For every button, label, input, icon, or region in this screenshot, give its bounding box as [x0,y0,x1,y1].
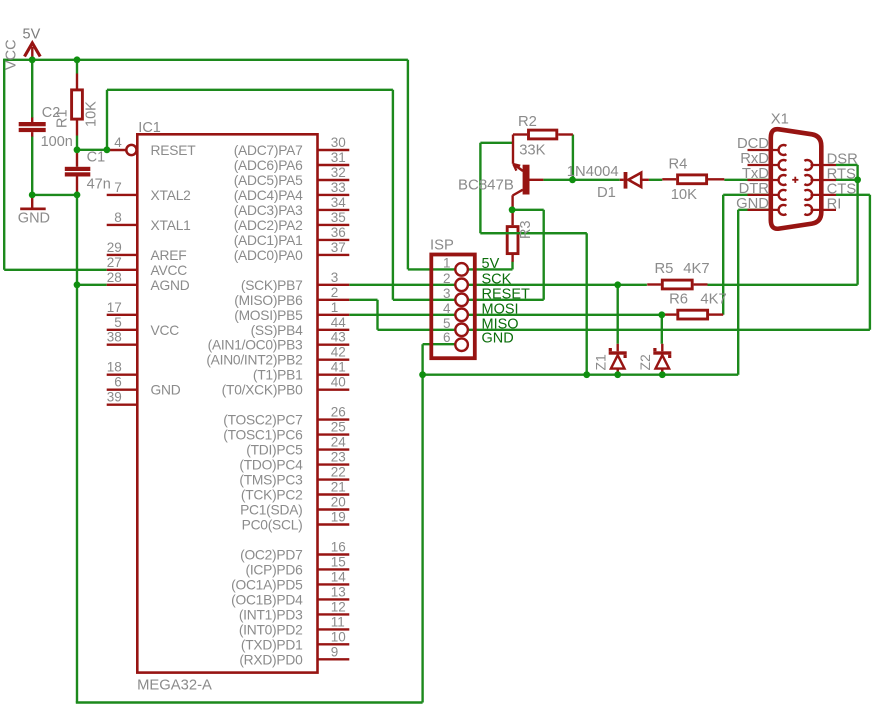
svg-text:29: 29 [107,240,122,255]
svg-text:5: 5 [114,315,122,330]
svg-text:R3: R3 [518,220,534,239]
svg-text:(SS)PB4: (SS)PB4 [251,323,303,338]
svg-text:RESET: RESET [482,286,530,302]
svg-text:BC847B: BC847B [458,176,514,193]
svg-text:12: 12 [331,599,346,614]
svg-text:(ADC7)PA7: (ADC7)PA7 [234,143,303,158]
svg-text:4: 4 [114,135,122,150]
svg-text:GND: GND [482,331,514,347]
svg-text:(ADC4)PA4: (ADC4)PA4 [234,188,303,203]
svg-text:5V: 5V [482,256,500,272]
svg-text:(TCK)PC2: (TCK)PC2 [241,488,303,503]
svg-text:R2: R2 [518,114,537,130]
svg-text:26: 26 [331,405,346,420]
svg-text:20: 20 [331,495,346,510]
svg-text:Z2: Z2 [637,354,653,371]
svg-text:(TXD)PD1: (TXD)PD1 [241,637,303,652]
svg-text:2: 2 [331,285,339,300]
svg-text:37: 37 [331,240,346,255]
svg-text:40: 40 [331,375,346,390]
svg-text:PC1(SDA): PC1(SDA) [240,503,302,518]
svg-text:RI: RI [827,196,842,212]
svg-text:22: 22 [331,465,346,480]
svg-text:(TOSC1)PC6: (TOSC1)PC6 [223,428,303,443]
svg-text:1N4004: 1N4004 [567,164,619,180]
svg-text:42: 42 [331,345,346,360]
svg-text:38: 38 [107,330,122,345]
svg-text:Z1: Z1 [593,354,609,371]
svg-text:4K7: 4K7 [683,261,709,277]
svg-text:(T0/XCK)PB0: (T0/XCK)PB0 [222,383,303,398]
svg-text:31: 31 [331,150,346,165]
svg-text:(MISO)PB6: (MISO)PB6 [234,293,303,308]
svg-text:CTS: CTS [827,181,857,197]
svg-text:11: 11 [331,614,345,629]
svg-text:27: 27 [107,255,122,270]
svg-text:R4: R4 [669,157,688,173]
svg-text:(TDO)PC4: (TDO)PC4 [239,458,303,473]
svg-text:C1: C1 [87,149,106,165]
svg-text:30: 30 [331,135,346,150]
svg-text:(AIN1/OC0)PB3: (AIN1/OC0)PB3 [208,338,303,353]
svg-text:(AIN0/INT2)PB2: (AIN0/INT2)PB2 [206,353,302,368]
svg-text:(ICP)PD6: (ICP)PD6 [245,562,303,577]
svg-text:R1: R1 [55,109,71,128]
svg-text:4: 4 [443,301,451,316]
svg-text:21: 21 [331,480,346,495]
svg-text:9: 9 [331,644,339,659]
svg-text:(ADC2)PA2: (ADC2)PA2 [234,218,303,233]
svg-text:RESET: RESET [151,143,197,158]
svg-text:13: 13 [331,584,346,599]
svg-text:6: 6 [443,330,451,345]
svg-text:MEGA32-A: MEGA32-A [137,677,212,693]
svg-text:32: 32 [331,165,346,180]
svg-text:RTS: RTS [827,167,856,183]
svg-text:GND: GND [736,196,769,212]
svg-text:PC0(SCL): PC0(SCL) [242,518,303,533]
svg-text:VCC: VCC [151,323,180,338]
svg-text:ISP: ISP [430,238,454,254]
svg-text:DTR: DTR [739,181,769,197]
svg-text:(INT1)PD3: (INT1)PD3 [239,607,303,622]
svg-text:R6: R6 [669,291,688,307]
svg-text:23: 23 [331,450,346,465]
svg-text:5: 5 [443,316,451,331]
svg-text:17: 17 [107,300,122,315]
svg-text:AGND: AGND [151,278,190,293]
svg-text:35: 35 [331,210,346,225]
svg-text:16: 16 [331,540,346,555]
svg-text:25: 25 [331,420,346,435]
svg-text:RxD: RxD [740,151,769,167]
svg-text:(INT0)PD2: (INT0)PD2 [239,622,303,637]
svg-text:10K: 10K [671,187,697,203]
svg-text:3: 3 [331,270,339,285]
svg-text:1: 1 [331,300,339,315]
svg-text:SCK: SCK [482,271,512,287]
svg-text:4K7: 4K7 [700,291,726,307]
svg-text:41: 41 [331,360,346,375]
svg-text:X1: X1 [771,111,789,127]
svg-text:3: 3 [443,286,451,301]
svg-text:39: 39 [107,390,122,405]
svg-text:28: 28 [107,270,122,285]
svg-text:XTAL1: XTAL1 [151,218,191,233]
svg-text:(ADC6)PA6: (ADC6)PA6 [234,158,303,173]
svg-text:(OC1B)PD4: (OC1B)PD4 [231,592,303,607]
svg-text:(ADC3)PA3: (ADC3)PA3 [234,203,303,218]
svg-text:DSR: DSR [827,152,858,168]
svg-text:15: 15 [331,554,346,569]
svg-text:(T1)PB1: (T1)PB1 [253,368,303,383]
svg-text:TxD: TxD [742,166,769,182]
svg-text:10: 10 [331,629,346,644]
svg-text:19: 19 [331,510,346,525]
svg-text:14: 14 [331,569,347,584]
svg-text:44: 44 [331,315,347,330]
svg-text:AVCC: AVCC [151,263,188,278]
svg-text:33: 33 [331,180,346,195]
svg-text:MOSI: MOSI [482,301,519,317]
svg-text:(TOSC2)PC7: (TOSC2)PC7 [223,413,302,428]
svg-text:5V: 5V [23,26,41,42]
svg-text:43: 43 [331,330,346,345]
svg-text:D1: D1 [597,185,616,201]
svg-text:DCD: DCD [737,136,769,152]
svg-text:GND: GND [151,383,181,398]
svg-text:36: 36 [331,225,346,240]
svg-text:1: 1 [443,255,451,270]
svg-text:IC1: IC1 [138,120,161,136]
svg-text:33K: 33K [519,142,545,158]
svg-text:XTAL2: XTAL2 [151,188,191,203]
svg-text:(ADC0)PA0: (ADC0)PA0 [234,248,303,263]
svg-text:(TMS)PC3: (TMS)PC3 [239,473,303,488]
svg-text:2: 2 [443,271,451,286]
svg-text:(SCK)PB7: (SCK)PB7 [241,278,303,293]
svg-text:8: 8 [114,210,122,225]
svg-text:(TDI)PC5: (TDI)PC5 [246,443,303,458]
svg-text:AREF: AREF [151,248,187,263]
svg-text:(ADC5)PA5: (ADC5)PA5 [234,173,303,188]
svg-text:GND: GND [18,211,50,227]
svg-text:10K: 10K [84,101,100,127]
svg-text:18: 18 [107,360,122,375]
svg-text:24: 24 [331,435,347,450]
svg-text:(ADC1)PA1: (ADC1)PA1 [234,233,303,248]
svg-text:(RXD)PD0: (RXD)PD0 [239,652,303,667]
svg-text:(MOSI)PB5: (MOSI)PB5 [234,308,303,323]
svg-text:7: 7 [114,180,122,195]
svg-text:34: 34 [331,195,347,210]
svg-text:R5: R5 [655,261,674,277]
svg-text:(OC1A)PD5: (OC1A)PD5 [231,577,303,592]
svg-text:(OC2)PD7: (OC2)PD7 [240,548,302,563]
svg-text:47n: 47n [87,176,111,192]
svg-text:6: 6 [114,375,122,390]
svg-text:100n: 100n [41,134,73,150]
svg-text:VCC: VCC [4,39,20,70]
